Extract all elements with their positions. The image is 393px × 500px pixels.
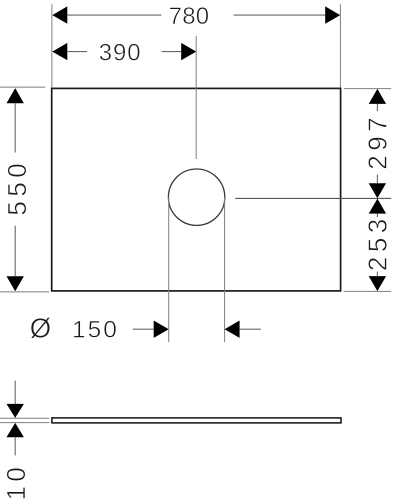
dimension Ø150: left arrow (pointing right) <box>154 321 169 338</box>
dimension Ø150: right tangent extension line <box>224 197 226 342</box>
dimension 297: line bottom segment <box>376 175 378 184</box>
dimension 10: lower line segment <box>14 437 16 455</box>
dimension 390: centre extension line <box>195 36 197 159</box>
dimension 10: bottom extension line <box>0 422 49 424</box>
dimension 297: top arrow <box>369 89 386 104</box>
dimension 550: bottom extension line <box>0 291 49 293</box>
dimension 780: line right segment <box>234 14 326 16</box>
svg-text:253: 253 <box>362 214 392 271</box>
dimension 780: right arrow <box>325 6 340 23</box>
dimension 780: left arrow <box>52 6 67 23</box>
dimension 297: line top segment <box>376 104 378 111</box>
dimension 10: top extension line <box>0 417 49 419</box>
dimension 550: top arrow <box>7 88 24 103</box>
dimension 550: line bottom segment <box>14 226 16 277</box>
dimension 550: top extension line <box>0 86 45 88</box>
top view: console plate outline <box>52 88 341 291</box>
dimension 390: right arrow <box>181 43 196 60</box>
dimension Ø150: left tangent extension line <box>168 197 170 342</box>
dimension 780: line left segment <box>67 14 161 16</box>
svg-text:550: 550 <box>2 159 32 216</box>
svg-text:Ø: Ø <box>30 312 51 343</box>
dimension Ø150: leader line left segment <box>133 328 154 330</box>
dimension 780: right extension line <box>339 4 341 87</box>
dimension 253: bottom arrow <box>369 276 386 291</box>
dimension 390: line right segment <box>162 51 182 53</box>
dimension 297/253: bottom extension line <box>344 290 392 292</box>
dimension 390: line left segment <box>67 51 87 53</box>
dimension 297/253: centre extension line <box>235 197 391 199</box>
dimension 297: bottom arrow <box>369 183 386 198</box>
dimension 10: lower arrow (pointing up) <box>7 423 24 437</box>
dimension 253: top arrow <box>369 199 386 214</box>
svg-text:390: 390 <box>99 39 142 66</box>
dimension 550: bottom arrow <box>7 276 24 291</box>
dimension Ø150: right arrow (pointing left) <box>225 321 240 338</box>
svg-text:10: 10 <box>1 463 31 500</box>
dimension 253: line top segment <box>376 214 378 217</box>
dimension 10: upper arrow (pointing down) <box>7 404 24 418</box>
dimension Ø150: leader line right segment <box>240 328 261 330</box>
svg-text:780: 780 <box>169 3 210 30</box>
dimension 550: line top segment <box>14 103 16 152</box>
basin cutout circle Ø150 <box>168 169 224 225</box>
dimension 390: left arrow <box>52 43 67 60</box>
svg-text:150: 150 <box>72 317 119 344</box>
svg-text:297: 297 <box>362 113 392 170</box>
dimension 10: upper line segment <box>14 381 16 404</box>
side view: plate profile <box>52 418 341 423</box>
dimension 780: left extension line <box>51 4 53 87</box>
dimension 253: line bottom segment <box>376 272 378 277</box>
dimension 297/253: top extension line <box>344 88 391 90</box>
